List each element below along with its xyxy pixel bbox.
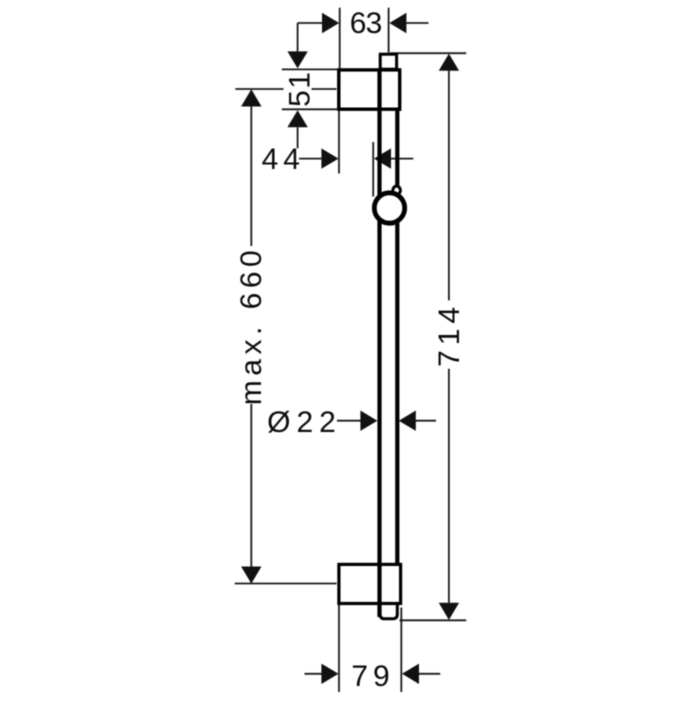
wire: dim 714 vertical lower bbox=[448, 369, 450, 603]
label background: 714 bbox=[434, 302, 462, 367]
wire: dim 79 extension line left bbox=[338, 605, 340, 692]
wire: dim 79 extension line right bbox=[400, 608, 402, 693]
top wall bracket bbox=[339, 70, 400, 109]
wire: dim 714 vertical upper bbox=[448, 71, 450, 301]
arrow: dim 44 right (points left) bbox=[374, 148, 391, 168]
wire: dim 51 extension line top bbox=[282, 68, 337, 70]
slider clamp hook bbox=[393, 186, 401, 194]
svg-text:Ø22: Ø22 bbox=[267, 406, 342, 439]
label background: max. 660 bbox=[236, 247, 265, 403]
arrow: dim 51 top (points down) bbox=[287, 51, 307, 68]
wire: dim 714 extension line top bbox=[390, 52, 466, 54]
arrow: dim 63 right (points left) bbox=[389, 13, 406, 33]
wire: dim 44 tail right bbox=[391, 158, 413, 160]
wire: dim 63 right tail bbox=[406, 22, 428, 24]
svg-text:44: 44 bbox=[262, 143, 305, 176]
wire: dim 22 tail right bbox=[416, 420, 437, 422]
arrow: dim 660 top (points up) bbox=[241, 89, 261, 106]
arrow: dim 714 bottom (points down) bbox=[439, 603, 459, 620]
wire: wall extension below top bracket bbox=[338, 111, 340, 174]
wire: dim 660 extension line bottom bbox=[235, 583, 337, 585]
svg-text:63: 63 bbox=[350, 7, 382, 40]
bar left outline bbox=[377, 69, 381, 618]
arrow: dim 22 left (points right) bbox=[360, 411, 377, 431]
wire: dim 79 tail left bbox=[305, 673, 322, 675]
arrow: dim 714 top (points up) bbox=[439, 54, 459, 71]
wire: dim 51 vertical lower bbox=[297, 127, 299, 148]
bar right outline bbox=[395, 110, 399, 564]
wire: dim 714 extension line bottom bbox=[400, 619, 467, 621]
wire: dim 63 extension line right (bar center) bbox=[388, 8, 390, 53]
bottom cap of bar bbox=[380, 600, 397, 619]
arrow: dim 79 right (points left) bbox=[402, 664, 419, 684]
arrow: dim 44 left (points right) bbox=[321, 148, 338, 168]
arrow: dim 22 right (points left) bbox=[399, 411, 416, 431]
svg-text:51: 51 bbox=[284, 71, 317, 107]
wire: dim 660 extension line top bbox=[235, 88, 336, 90]
wire: dim 79 tail right bbox=[419, 673, 440, 675]
wire: dim 22 tail left bbox=[337, 420, 361, 422]
label background: 51 bbox=[284, 72, 312, 106]
wire: dim 51 vertical upper bbox=[297, 23, 299, 51]
svg-text:max. 660: max. 660 bbox=[235, 246, 268, 405]
wire: dim 660 vertical lower bbox=[250, 404, 252, 567]
wire: dim 63 left tail bbox=[298, 22, 322, 24]
wire: dim 44 tail left bbox=[299, 158, 321, 160]
arrow: dim 660 bottom (points down) bbox=[241, 567, 261, 584]
bottom wall bracket bbox=[339, 564, 401, 603]
svg-text:79: 79 bbox=[351, 660, 394, 693]
arrow: dim 79 left (points right) bbox=[321, 664, 338, 684]
arrow: dim 63 left (points right) bbox=[322, 13, 339, 33]
wire: dim 44 extension line at slider bbox=[372, 142, 374, 197]
slider ring bbox=[374, 193, 404, 223]
wire: dim 51 extension line bottom bbox=[282, 108, 337, 110]
wire: dim 63 extension line left (wall face) bbox=[339, 8, 341, 68]
top cap of bar bbox=[380, 54, 396, 69]
wire: dim 660 vertical upper bbox=[250, 107, 252, 247]
arrow: dim 51 bottom (points up) bbox=[287, 110, 307, 127]
svg-text:714: 714 bbox=[433, 302, 466, 367]
